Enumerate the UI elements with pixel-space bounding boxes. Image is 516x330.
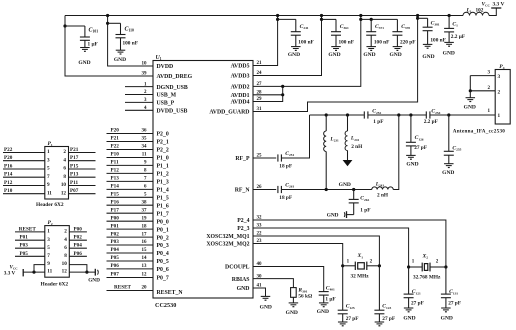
value 27 pF (C121) bbox=[411, 300, 424, 306]
pin number 35 (P21) bbox=[142, 137, 148, 142]
pin name P1_5 bbox=[157, 196, 169, 202]
power port GND (C262) bbox=[344, 211, 346, 218]
svg-text:USB_M: USB_M bbox=[157, 93, 177, 99]
svg-text:220 pF: 220 pF bbox=[400, 39, 415, 45]
svg-text:27 pF: 27 pF bbox=[411, 300, 424, 306]
value 56 kOhm (R301) bbox=[298, 294, 312, 300]
svg-text:2.2 µF: 2.2 µF bbox=[451, 34, 465, 40]
node: C241 stub junction bbox=[276, 18, 279, 21]
wire: C262 to GND port bbox=[347, 214, 354, 216]
wire: AVDD3 pin24 to rail bbox=[253, 16, 322, 76]
pin number 2 (P4 outside) bbox=[488, 86, 491, 91]
svg-text:P00: P00 bbox=[111, 215, 120, 221]
svg-text:1 pF: 1 pF bbox=[360, 208, 370, 214]
svg-text:P02: P02 bbox=[111, 231, 120, 237]
node: L231 bottom junction bbox=[325, 188, 328, 191]
wire: stub pin 13 P0_6 bbox=[107, 268, 154, 270]
svg-text:P15: P15 bbox=[111, 192, 120, 198]
pin name AVDD3 bbox=[231, 74, 250, 80]
node: X1 pin2 junction bbox=[378, 264, 381, 267]
pin number 23 (XOSC32M_MQ2) bbox=[257, 239, 263, 244]
wire: stub pin 15 P0_4 bbox=[107, 252, 154, 254]
svg-text:1: 1 bbox=[47, 229, 50, 235]
svg-text:P21: P21 bbox=[70, 147, 79, 153]
label C101 bbox=[89, 28, 99, 34]
svg-text:P1_1: P1_1 bbox=[157, 164, 169, 170]
wire: RBIAS pin30 to R301 bbox=[253, 279, 293, 288]
svg-text:RF_P: RF_P bbox=[235, 156, 250, 162]
wire: P1 pin 4 stub bbox=[69, 160, 96, 162]
svg-text:GND: GND bbox=[286, 310, 298, 316]
crystal X1 bbox=[355, 262, 367, 270]
svg-text:P10: P10 bbox=[4, 188, 13, 194]
svg-text:5: 5 bbox=[47, 166, 50, 172]
pin number 13 (P06) bbox=[142, 264, 148, 269]
svg-text:14: 14 bbox=[142, 256, 148, 261]
svg-text:32.768 MHz: 32.768 MHz bbox=[413, 274, 441, 280]
wire: P1 pin 1 stub bbox=[3, 152, 45, 154]
pin number 2 (P4 inside) bbox=[498, 89, 501, 95]
pin name AVDD_GUARD bbox=[209, 110, 249, 116]
svg-text:P11: P11 bbox=[70, 180, 78, 186]
capacitor C121 bbox=[404, 267, 414, 308]
svg-text:2: 2 bbox=[64, 229, 67, 235]
pin number 5 (P1) bbox=[47, 166, 50, 172]
wire: P1 pin 9 stub bbox=[3, 185, 45, 187]
label C381 bbox=[431, 21, 440, 27]
pin name P2_2 bbox=[157, 148, 169, 154]
wire: RF_P pin25 to C251 bbox=[253, 157, 276, 159]
net label P12 bbox=[111, 168, 120, 174]
wire: L243 up to RF node line bbox=[393, 115, 399, 190]
ground (P4) bbox=[466, 98, 476, 102]
wire: P2 pin 5 stub bbox=[15, 247, 45, 249]
pin number 1 (P2) bbox=[47, 229, 50, 235]
svg-text:P0_5: P0_5 bbox=[157, 259, 169, 265]
wire: DCOUPL pin40 to C401 bbox=[253, 267, 324, 292]
ground (C110) bbox=[116, 50, 126, 54]
wire: P4 pin3 to pin2 bbox=[469, 76, 471, 91]
wire: X2 pin1 lead bbox=[409, 266, 423, 268]
ground (C401) bbox=[319, 303, 329, 307]
svg-text:9: 9 bbox=[47, 182, 50, 188]
svg-text:P0_2: P0_2 bbox=[157, 235, 169, 241]
node: C381 stub junction bbox=[416, 17, 419, 20]
svg-text:P22: P22 bbox=[4, 147, 13, 153]
label C252 bbox=[372, 109, 381, 115]
pin number 1 (P4 inside) bbox=[498, 113, 501, 119]
svg-text:2: 2 bbox=[63, 149, 66, 155]
label CC2530 bbox=[155, 302, 176, 309]
ground (C241) bbox=[291, 47, 301, 51]
svg-text:CC2530: CC2530 bbox=[155, 302, 176, 309]
pin number 28 (AVDD1) bbox=[257, 91, 263, 96]
pin number 34 (P22) bbox=[142, 145, 148, 150]
label C262 bbox=[360, 196, 369, 202]
label P2 bbox=[48, 220, 53, 226]
label GND (C262 port) bbox=[327, 213, 339, 219]
net label P07 bbox=[70, 188, 79, 194]
svg-text:P22: P22 bbox=[111, 144, 120, 150]
wire: stub pin 11 P1_0 bbox=[107, 157, 154, 159]
wire: P4 pin2 stub bbox=[470, 90, 495, 92]
svg-text:P1_7: P1_7 bbox=[157, 211, 169, 217]
net label P16 bbox=[111, 199, 120, 205]
ground (C370) bbox=[393, 47, 403, 51]
capacitor C401 bbox=[319, 292, 329, 303]
wire: C261 to L243 bbox=[281, 189, 371, 191]
pin name P0_2 bbox=[157, 235, 169, 241]
pin name P0_7 bbox=[157, 276, 169, 282]
value 2 nH (L243) bbox=[377, 193, 389, 199]
label Header 6X2 (P2) bbox=[41, 282, 69, 288]
pin number 16 (P03) bbox=[142, 240, 148, 245]
net label P20 bbox=[111, 128, 120, 134]
value 27 pF (C126) bbox=[414, 145, 427, 151]
svg-text:27 pF: 27 pF bbox=[414, 145, 427, 151]
ground (C121) bbox=[404, 308, 414, 312]
svg-text:100 nF: 100 nF bbox=[374, 39, 389, 45]
power port Vcc 3.3V (P2) bbox=[22, 269, 24, 276]
svg-text:GND: GND bbox=[339, 182, 351, 188]
pin number 3 (P4 outside) bbox=[488, 71, 491, 76]
wire: C251 to RF node line bbox=[281, 115, 309, 158]
wire: stub pin 36 P2_0 bbox=[107, 133, 154, 135]
svg-text:100 nF: 100 nF bbox=[123, 41, 138, 47]
node: rail junction at x107 bbox=[106, 14, 109, 17]
pin number 2 (P2) bbox=[64, 229, 67, 235]
pin number 10 (P1) bbox=[61, 182, 67, 188]
svg-text:4: 4 bbox=[64, 237, 67, 243]
pin name USB_P bbox=[157, 101, 175, 107]
label C126 bbox=[415, 135, 424, 141]
wire: P2 pin 3 stub bbox=[15, 239, 45, 241]
svg-text:P13: P13 bbox=[70, 172, 79, 178]
pin number 21 (AVDD5) bbox=[257, 61, 263, 66]
pin number 4 (P2) bbox=[64, 237, 67, 243]
pin number 5 (P15) bbox=[144, 193, 147, 198]
label GND (P4) bbox=[464, 105, 476, 111]
svg-text:GND: GND bbox=[288, 52, 300, 58]
pin name P1_4 bbox=[157, 188, 169, 194]
op-amp/IC U1 CC2530 body bbox=[153, 61, 253, 299]
net label P02 bbox=[74, 235, 83, 241]
svg-text:GND: GND bbox=[363, 52, 375, 58]
svg-text:1: 1 bbox=[47, 149, 50, 155]
pin number 7 (P2) bbox=[47, 253, 50, 259]
pin name RESET_N bbox=[157, 290, 184, 296]
pin name AVDD_DREG bbox=[157, 74, 193, 80]
wire: stub pin 3 USB_P bbox=[125, 101, 153, 103]
svg-text:GND: GND bbox=[406, 161, 418, 167]
label C131 bbox=[449, 289, 458, 295]
label Antenna_IFA_cc2530 bbox=[453, 129, 505, 135]
svg-text:GND: GND bbox=[328, 52, 340, 58]
label C371 bbox=[375, 24, 384, 30]
svg-text:RESET_N: RESET_N bbox=[157, 290, 184, 296]
ground (C126) bbox=[406, 155, 416, 159]
svg-text:GND: GND bbox=[237, 286, 250, 292]
svg-text:P15: P15 bbox=[70, 164, 79, 170]
wire: stub pin 37 P1_7 bbox=[107, 212, 154, 214]
net label P04 bbox=[111, 247, 120, 253]
label GND (C126) bbox=[406, 161, 418, 167]
wire: P1 pin 6 stub bbox=[69, 168, 96, 170]
value 27 pF (C123) bbox=[382, 316, 395, 322]
ground (R301) bbox=[289, 303, 299, 307]
pin name P2_0 bbox=[157, 132, 169, 138]
svg-text:P07: P07 bbox=[70, 188, 79, 194]
svg-text:11: 11 bbox=[47, 269, 52, 275]
wire: stub pin 16 P0_3 bbox=[107, 244, 154, 246]
pin number 7 (P1) bbox=[47, 174, 50, 180]
label GND (C255) bbox=[442, 170, 454, 176]
svg-text:GND: GND bbox=[260, 305, 272, 311]
svg-text:36: 36 bbox=[142, 129, 148, 134]
svg-text:GND: GND bbox=[389, 52, 401, 58]
svg-text:12: 12 bbox=[142, 273, 148, 278]
ground (C1) bbox=[444, 42, 454, 46]
label C254 bbox=[431, 109, 440, 115]
svg-text:P06: P06 bbox=[111, 263, 120, 269]
net label P03 bbox=[20, 243, 29, 249]
wire: stub pin 1 DGND_USB bbox=[125, 86, 153, 88]
pin number 6 (P2) bbox=[64, 245, 67, 251]
pin number 3 (P4 inside) bbox=[498, 74, 501, 80]
net label P13 bbox=[111, 176, 120, 182]
svg-text:P20: P20 bbox=[111, 128, 120, 134]
node: junction pin28 wire bbox=[281, 93, 284, 96]
pin number 1 (DGND_USB) bbox=[144, 82, 147, 87]
net label P01 bbox=[111, 223, 120, 229]
wire: P2 pin 4 stub bbox=[69, 239, 87, 241]
pin number 9 (P11) bbox=[144, 161, 147, 166]
value 220 pF (C370) bbox=[400, 39, 415, 45]
pin number 18 (P01) bbox=[142, 224, 148, 229]
value 100 nF (C381) bbox=[430, 37, 445, 43]
svg-text:4: 4 bbox=[63, 157, 66, 163]
svg-text:P0_0: P0_0 bbox=[157, 219, 169, 225]
label C110 bbox=[125, 27, 135, 33]
value 2.2 uF (C1) bbox=[451, 34, 465, 40]
svg-text:18: 18 bbox=[142, 224, 148, 229]
resistor R301 bbox=[291, 288, 297, 303]
net label P05 bbox=[20, 251, 29, 257]
capacitor C262 bbox=[349, 190, 359, 215]
pin number 27 (AVDD2) bbox=[257, 82, 263, 87]
capacitor C381 bbox=[423, 18, 433, 44]
value 27 pF (C131) bbox=[448, 300, 461, 306]
node: rail junction AVDD_GUARD bbox=[416, 14, 419, 17]
net label P10 bbox=[111, 152, 120, 158]
capacitor C371 bbox=[366, 19, 376, 46]
svg-text:3: 3 bbox=[498, 74, 501, 80]
svg-text:AVDD_GUARD: AVDD_GUARD bbox=[209, 110, 249, 116]
svg-text:3: 3 bbox=[47, 237, 50, 243]
ground (C255) bbox=[444, 164, 454, 168]
pin number 4 (P1) bbox=[63, 157, 66, 163]
inductor L1 bbox=[463, 12, 489, 15]
wire: stub pin 4 DVDD_USB bbox=[125, 109, 153, 111]
pin number 11 (P10) bbox=[142, 153, 147, 158]
wire: stub pin 34 P2_2 bbox=[107, 149, 154, 151]
node: junction pin27 wire bbox=[281, 85, 284, 88]
power port Vcc 3.3V (top) bbox=[491, 7, 501, 9]
node: Vcc junction (P2) bbox=[32, 271, 35, 274]
ground (pin41) bbox=[261, 296, 271, 300]
label C251 bbox=[285, 151, 294, 157]
svg-text:P0_4: P0_4 bbox=[157, 251, 169, 257]
svg-text:P0_1: P0_1 bbox=[157, 227, 169, 233]
pin number 38 (P16) bbox=[142, 200, 148, 205]
wire: rail down to AVDD_DREG pin 39 bbox=[65, 16, 153, 77]
label GND (C121) bbox=[403, 315, 415, 321]
svg-text:P20: P20 bbox=[4, 155, 13, 161]
pin number 22 (XOSC32M_MQ1) bbox=[257, 232, 263, 237]
wire: stub pin 19 P0_0 bbox=[107, 220, 154, 222]
label C1 bbox=[452, 22, 458, 28]
node: rail junction AVDD3 bbox=[320, 14, 323, 17]
value 2 nH (L241) bbox=[351, 144, 363, 150]
svg-text:32 MHz: 32 MHz bbox=[351, 274, 370, 280]
svg-text:GND: GND bbox=[403, 315, 415, 321]
svg-text:10: 10 bbox=[142, 62, 148, 67]
label C121 bbox=[412, 289, 421, 295]
node: rail junction AVDD2 bbox=[359, 14, 362, 17]
svg-text:AVDD1: AVDD1 bbox=[231, 93, 250, 99]
inductor L231 bbox=[324, 115, 327, 190]
svg-text:1 pF: 1 pF bbox=[373, 119, 383, 125]
connector P4 body bbox=[495, 70, 510, 125]
pin name DGND_USB bbox=[157, 85, 188, 91]
pin name P2_1 bbox=[157, 140, 169, 146]
pin number 12 (P2) bbox=[62, 269, 68, 275]
svg-text:18 pF: 18 pF bbox=[279, 195, 292, 201]
wire: stub pin 9 P1_1 bbox=[107, 164, 154, 166]
capacitor C110 bbox=[116, 23, 126, 50]
wire: P2 pin 2 stub bbox=[69, 231, 87, 233]
svg-text:GND: GND bbox=[464, 105, 476, 111]
node: C371 stub junction bbox=[359, 18, 362, 21]
svg-text:P14: P14 bbox=[111, 184, 120, 190]
net label P06 bbox=[111, 263, 120, 269]
capacitor C252 bbox=[364, 111, 368, 118]
label GND (C401) bbox=[317, 309, 329, 315]
svg-text:37: 37 bbox=[142, 208, 148, 213]
net label P12 bbox=[4, 180, 13, 186]
label GND (C381) bbox=[422, 54, 434, 60]
wire: P2 pin 8 stub bbox=[69, 255, 87, 257]
label R301 bbox=[297, 288, 307, 294]
label C401 bbox=[326, 285, 335, 291]
value 2.2 pF (C254) bbox=[424, 119, 438, 125]
label X1 bbox=[357, 253, 364, 259]
svg-text:P16: P16 bbox=[111, 199, 120, 205]
pin number 8 (P1) bbox=[63, 174, 66, 180]
wire: X1 pin1 lead bbox=[343, 265, 356, 267]
capacitor C125 bbox=[338, 266, 348, 322]
pin number 25 (RF_P) bbox=[257, 154, 263, 159]
svg-text:12: 12 bbox=[62, 269, 68, 275]
svg-text:100 nF: 100 nF bbox=[430, 37, 445, 43]
net label P22 bbox=[111, 144, 120, 150]
wire: P1 pin 12 stub bbox=[69, 193, 96, 195]
svg-text:P1_5: P1_5 bbox=[157, 196, 169, 202]
label P1 bbox=[48, 141, 53, 147]
net label P06 bbox=[74, 251, 83, 257]
svg-text:USB_P: USB_P bbox=[157, 101, 175, 107]
svg-text:P1_0: P1_0 bbox=[157, 156, 169, 162]
net label P14 bbox=[4, 172, 13, 178]
svg-text:P13: P13 bbox=[111, 176, 120, 182]
wire: P1 pin 5 stub bbox=[3, 168, 45, 170]
pin name RF_P bbox=[235, 156, 250, 162]
value 1 uF (C101) bbox=[88, 42, 98, 48]
svg-text:3: 3 bbox=[47, 157, 50, 163]
svg-text:11: 11 bbox=[47, 190, 52, 196]
node: X1 pin1 junction bbox=[341, 264, 344, 267]
node: junction RF_N riser top bbox=[397, 113, 400, 116]
inductor L243 bbox=[372, 187, 393, 190]
svg-text:9: 9 bbox=[47, 261, 50, 267]
pin number 19 (P00) bbox=[142, 216, 148, 221]
pin number 32 (P2_4) bbox=[257, 216, 263, 221]
net label RESET bbox=[114, 284, 132, 290]
pin number 9 (P1) bbox=[47, 182, 50, 188]
svg-text:P0_6: P0_6 bbox=[157, 267, 169, 273]
wire: AVDD5 pin21 to rail bbox=[253, 16, 278, 66]
wire: AVDD2 pin27 to rail bbox=[253, 16, 361, 87]
svg-text:20: 20 bbox=[142, 285, 148, 290]
label GND (C131) bbox=[441, 315, 453, 321]
svg-text:27 pF: 27 pF bbox=[346, 316, 359, 322]
svg-text:GND: GND bbox=[114, 57, 126, 63]
capacitor C1 bbox=[444, 16, 454, 43]
wire: XOSC32M_MQ2 pin23 to X1 pin1 bbox=[253, 244, 343, 266]
power port GND (P2) bbox=[95, 269, 98, 276]
value 100 nF (C241) bbox=[298, 39, 313, 45]
value 32.768 MHz (X2) bbox=[413, 274, 441, 280]
capacitor C251 bbox=[278, 154, 282, 161]
svg-text:6: 6 bbox=[63, 166, 66, 172]
svg-text:1: 1 bbox=[498, 113, 501, 119]
svg-text:P2_3: P2_3 bbox=[237, 226, 249, 232]
capacitor C361 bbox=[331, 19, 341, 46]
svg-text:1 µF: 1 µF bbox=[325, 296, 335, 302]
svg-text:P14: P14 bbox=[4, 172, 13, 178]
pin number 7 (P13) bbox=[144, 177, 147, 182]
svg-text:P04: P04 bbox=[74, 243, 83, 249]
node: junction C371 bbox=[370, 18, 373, 21]
wire: RF_N pin26 to C261 bbox=[253, 189, 276, 191]
label C361 bbox=[340, 24, 349, 30]
value 1 pF (C252) bbox=[373, 119, 383, 125]
svg-text:GND: GND bbox=[443, 50, 455, 56]
pin number 2 (P1) bbox=[63, 149, 66, 155]
wire: P1 pin 10 stub bbox=[69, 185, 96, 187]
svg-text:P0_7: P0_7 bbox=[157, 276, 169, 282]
value 100 nF (C361) bbox=[339, 39, 354, 45]
svg-text:XOSC32M_MQ1: XOSC32M_MQ1 bbox=[206, 234, 249, 240]
node: rail junction AVDD5 bbox=[276, 14, 279, 17]
svg-text:P03: P03 bbox=[111, 239, 120, 245]
wire: rail down to DVDD pin 10 bbox=[108, 16, 153, 67]
svg-text:P10: P10 bbox=[111, 152, 120, 158]
svg-text:P1_3: P1_3 bbox=[157, 180, 169, 186]
connector P2 body bbox=[45, 226, 70, 278]
label GND (P2 port) bbox=[88, 277, 100, 283]
pin name XOSC32M_MQ1 bbox=[206, 234, 249, 240]
